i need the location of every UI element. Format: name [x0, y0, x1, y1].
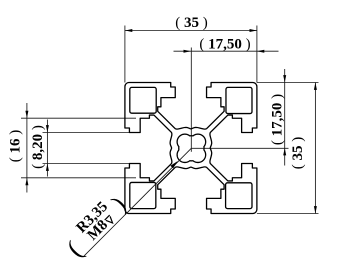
wire: extension line right of top dims [256, 26, 258, 83]
svg-text:( 8,20 ): ( 8,20 ) [30, 125, 46, 169]
label R3,35 / M8 depth [59, 189, 132, 262]
wire: ext lines for left 16 dim [21, 117, 136, 119]
svg-text:( 35 ): ( 35 ) [290, 137, 306, 170]
bottom-right corner cavity square [226, 183, 252, 209]
wire: top ext line to right dims [257, 82, 319, 84]
node: horizontal centerline [191, 147, 288, 149]
svg-text:( 17,50 ): ( 17,50 ) [270, 94, 286, 145]
dimension 17,50 right (vertical) [284, 69, 286, 166]
leader line to center hole [83, 148, 191, 257]
aluminum profile outer contour with T-slots [125, 83, 257, 214]
wire: ext lines for left 8,20 dim [43, 132, 131, 134]
wire: extension line left of top 35 dim [124, 26, 126, 83]
node: vertical centerline [190, 48, 192, 152]
dimension 35 right (vertical) [314, 83, 316, 214]
bottom-left corner cavity square [130, 182, 156, 208]
svg-text:( 17,50 ): ( 17,50 ) [199, 37, 250, 53]
dimension 16 left (vertical) [26, 103, 28, 193]
dimension 17,50 top [174, 50, 279, 52]
wire: bottom ext line to right 35 dim [257, 213, 319, 215]
center screw hole (lobed) [177, 134, 206, 162]
top-right corner cavity square [226, 87, 252, 113]
top-left corner cavity square [130, 87, 156, 113]
svg-text:( 35 ): ( 35 ) [175, 15, 208, 31]
dimension 8,20 left (vertical) [46, 120, 48, 177]
dimension 35 top [125, 30, 257, 32]
svg-text:( 16 ): ( 16 ) [8, 130, 24, 163]
